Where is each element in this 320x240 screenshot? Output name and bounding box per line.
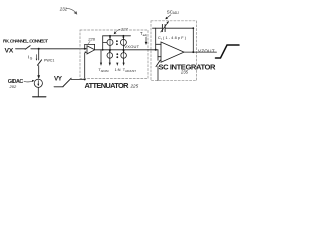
svg-text:I: I	[161, 37, 162, 41]
feedback wire U1	[85, 44, 95, 49]
wire SC feedback left riser	[155, 28, 157, 50]
svg-text:AIN/M: AIN/M	[101, 69, 109, 73]
switch RX_CHANNEL_CONNECT (SPST)	[25, 46, 30, 50]
svg-text:PWC1: PWC1	[44, 58, 54, 62]
wire VY horizontal with arrowhead	[71, 78, 85, 80]
wire stub to U2 top input	[156, 43, 161, 45]
trim element top-right (current cell)	[122, 36, 124, 40]
switch SC input branch	[156, 60, 160, 67]
svg-text:ADJ: ADJ	[173, 11, 179, 15]
control arrow left (from rail)	[100, 50, 102, 63]
wire U2 output	[184, 51, 217, 53]
current source GIDAC (circle with down arrow)	[34, 79, 42, 87]
svg-text:VXOUT: VXOUT	[124, 44, 139, 49]
op-amp U2 (SC integrator)	[161, 42, 184, 62]
arrow Tadj down	[145, 37, 147, 42]
trim element bottom-right (current cell)	[123, 50, 125, 53]
node SC input junction	[155, 49, 157, 51]
node feedback right junction	[192, 51, 194, 53]
op-amp U1 (input buffer)	[87, 46, 95, 54]
svg-text:adj: adj	[143, 33, 147, 37]
ground	[33, 96, 46, 98]
capacitor CI (variable)	[161, 24, 163, 31]
svg-text:231: 231	[59, 7, 68, 12]
ellipsis dots bottom row	[116, 53, 118, 55]
wire GIDAC branch upper	[38, 49, 40, 60]
svg-text:226: 226	[87, 37, 95, 42]
svg-text:VX: VX	[5, 47, 14, 54]
svg-text:202: 202	[9, 84, 17, 89]
input arrowheads U1	[85, 48, 87, 50]
trim element bottom-left (current cell)	[109, 50, 111, 53]
wire VY riser to buffer lower input	[84, 53, 86, 80]
svg-text:(1-48pF): (1-48pF)	[163, 36, 187, 40]
switch PWC1	[37, 60, 41, 66]
svg-text:VY: VY	[54, 75, 63, 82]
node A (GIDAC tap junction)	[38, 48, 40, 50]
wire VX input	[16, 48, 26, 50]
wire VX to buffer input	[31, 48, 85, 50]
svg-text:RX_CHANNEL_CONNECT: RX_CHANNEL_CONNECT	[3, 38, 48, 44]
svg-text:ATTENUATOR: ATTENUATOR	[85, 81, 130, 90]
wire stub riser to left trim cell	[103, 41, 107, 43]
trim element top-left (current cell)	[109, 36, 111, 40]
node U1 input junction	[84, 48, 86, 50]
wire ladder top rail	[103, 35, 131, 37]
ramp waveform icon	[216, 45, 240, 58]
arrow IG direction	[36, 55, 38, 60]
wire VXOUT rail	[95, 49, 158, 51]
wire U2 lower input	[158, 56, 161, 58]
wire ladder left riser	[102, 36, 104, 50]
node ladder bottom left	[102, 49, 104, 51]
svg-text:ADJUST: ADJUST	[125, 69, 136, 73]
SC integrator dashed box	[151, 21, 197, 81]
wire current source to ground	[37, 87, 39, 96]
arrow SCADJ down-left	[166, 15, 171, 19]
node cap rail right corner	[192, 27, 194, 29]
control arrow middle	[116, 63, 118, 66]
svg-text:225: 225	[130, 84, 139, 89]
svg-text:G: G	[30, 57, 33, 61]
attenuator dashed box	[80, 30, 148, 79]
svg-text:1:N: 1:N	[115, 68, 121, 72]
wire to current source with current arrowhead	[38, 66, 40, 76]
leader arrow GIDAC	[24, 80, 33, 83]
svg-text:VZOUT: VZOUT	[198, 48, 215, 53]
wire SC feedback right riser	[192, 28, 194, 52]
svg-text:235: 235	[180, 69, 189, 74]
ellipsis dots top row	[116, 40, 118, 42]
svg-text:227: 227	[120, 26, 128, 31]
wire SC feedback top rail left	[153, 27, 163, 29]
switch VY	[54, 86, 63, 88]
wire SC feedback top rail right	[165, 27, 193, 29]
